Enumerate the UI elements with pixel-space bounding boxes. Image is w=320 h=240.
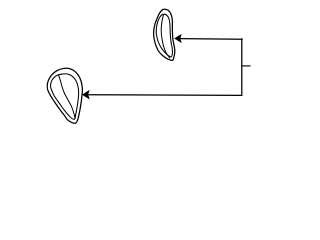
leader line to part A <box>181 38 243 41</box>
part B outer outline (lower teardrop molding) <box>47 68 82 123</box>
leader line to part B <box>89 94 242 97</box>
bracket vertical line <box>241 39 243 96</box>
arrowhead pointing to part A <box>175 34 182 42</box>
part A outer outline (upper teardrop molding) <box>154 9 175 60</box>
part A inner outline <box>156 14 172 57</box>
callout tick on bracket <box>242 65 250 67</box>
part B inner outline <box>51 74 79 119</box>
part B crease line <box>59 75 75 118</box>
arrowhead pointing to part B <box>83 90 90 99</box>
part A crease line <box>161 15 170 58</box>
